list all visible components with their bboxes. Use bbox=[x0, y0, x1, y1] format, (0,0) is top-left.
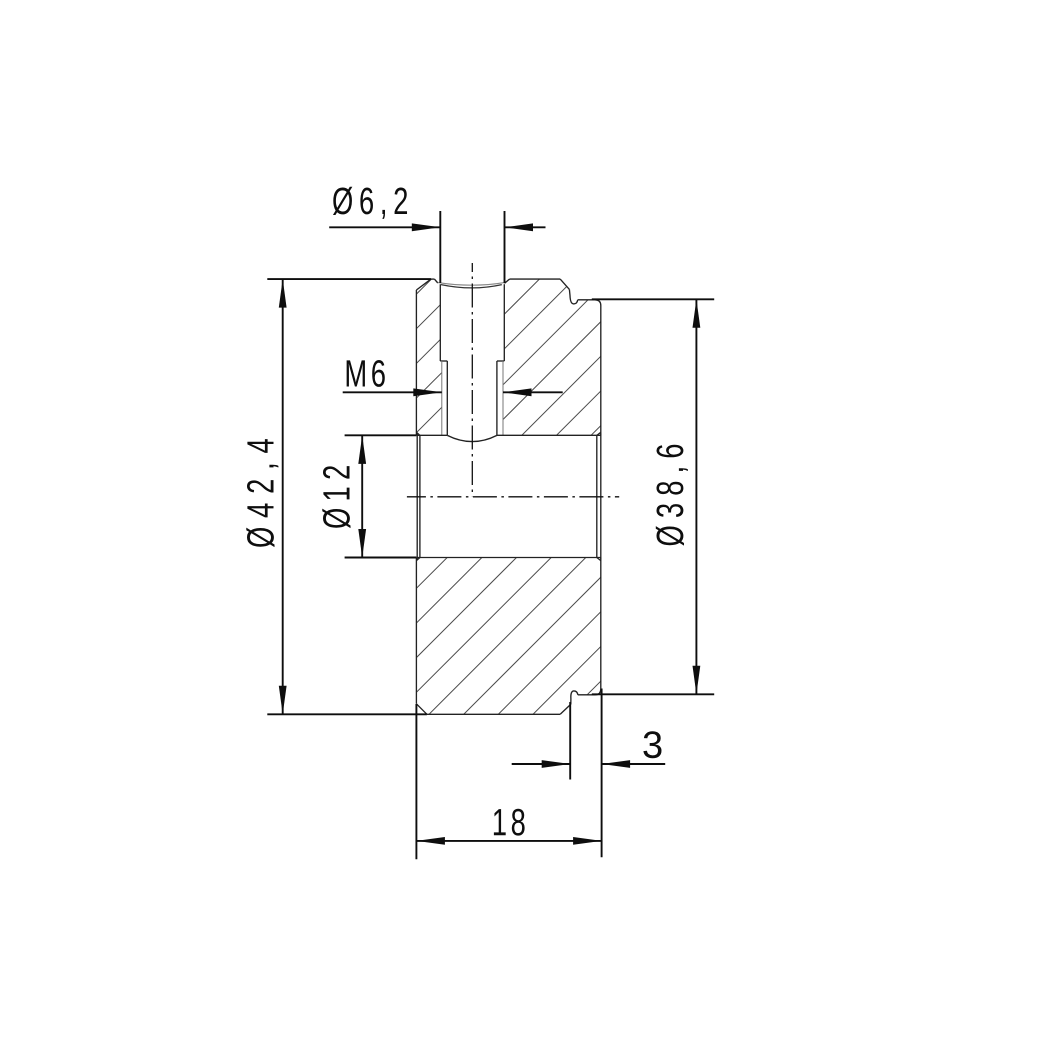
dimension O42,4: value label (rotated) bbox=[246, 439, 278, 547]
hatching: upper section block, right region bbox=[324, 270, 757, 460]
part outline: bottom-left chamfer bbox=[416, 704, 427, 715]
dimension M6: dimension line with arrows bbox=[343, 391, 563, 393]
dimension 3: value label bbox=[643, 731, 661, 758]
dimension O6,2: extension lines bbox=[440, 211, 504, 283]
part outline: right face bbox=[600, 306, 602, 690]
part outline: hole opening edge arcs bbox=[438, 283, 505, 288]
dimension O12: value label (rotated) bbox=[322, 466, 350, 528]
dimension 18: extension line left bbox=[415, 704, 417, 859]
part outline: bore O12 bottom edge bbox=[417, 557, 601, 559]
bore end edges on left face bbox=[416, 432, 420, 560]
part outline: left face bbox=[415, 290, 417, 704]
part outline: hole entry chamfers bbox=[434, 279, 509, 283]
dimension O42,4: extension lines bbox=[267, 279, 431, 714]
dimension O12: extension lines bbox=[345, 435, 417, 557]
hatching: lower section block bbox=[285, 550, 732, 720]
part outline: top-right chamfer bbox=[560, 279, 569, 289]
dimension 3: dimension line with arrows bbox=[512, 763, 666, 765]
hatching: upper section block, left band bbox=[251, 270, 580, 460]
part outline: top-right undercut groove bbox=[569, 289, 577, 304]
thread M6: drill point arc breaking into bore bbox=[447, 435, 497, 441]
part outline: step bottom surface O38.6 bbox=[578, 689, 601, 695]
dimension O6,2: dimension line with arrows bbox=[329, 226, 545, 228]
centerline: vertical axis of threaded hole bbox=[471, 263, 473, 497]
bore end edges on right face bbox=[597, 432, 601, 560]
dimension O12: dimension line with arrows bbox=[361, 435, 363, 557]
thread M6: minor diameter / drilled hole lines bbox=[447, 361, 497, 435]
part outline: bottom surface bbox=[427, 713, 560, 715]
dimension M6: value label bbox=[347, 360, 385, 387]
dimension O38,6: extension lines bbox=[592, 299, 714, 694]
part outline: step top surface O38.6 bbox=[578, 300, 601, 306]
part outline: counterbore O6.2 walls bbox=[440, 284, 504, 361]
centerline: horizontal axis of part bbox=[407, 496, 619, 498]
part outline: bore O12 top edge bbox=[417, 434, 601, 436]
part outline: top surface bbox=[431, 278, 560, 280]
thread M6: major diameter lines (thin) bbox=[442, 361, 503, 435]
part outline: bottom-right chamfer bbox=[560, 704, 571, 714]
dimension 18: dimension line with arrows bbox=[416, 840, 601, 842]
dimension O38,6: dimension line with arrows bbox=[695, 299, 697, 694]
dimension O42,4: dimension line with arrows bbox=[282, 279, 284, 714]
part outline: top-left chamfer bbox=[416, 279, 431, 290]
part outline: counterbore bottom shelves bbox=[440, 360, 504, 362]
dimension 3: extension lines bbox=[570, 689, 601, 858]
dimension O38,6: value label (rotated) bbox=[656, 445, 688, 546]
part outline: bottom-right undercut groove bbox=[571, 691, 578, 704]
dimension 18: value label bbox=[494, 809, 525, 836]
dimension O6,2: value label bbox=[333, 187, 407, 219]
